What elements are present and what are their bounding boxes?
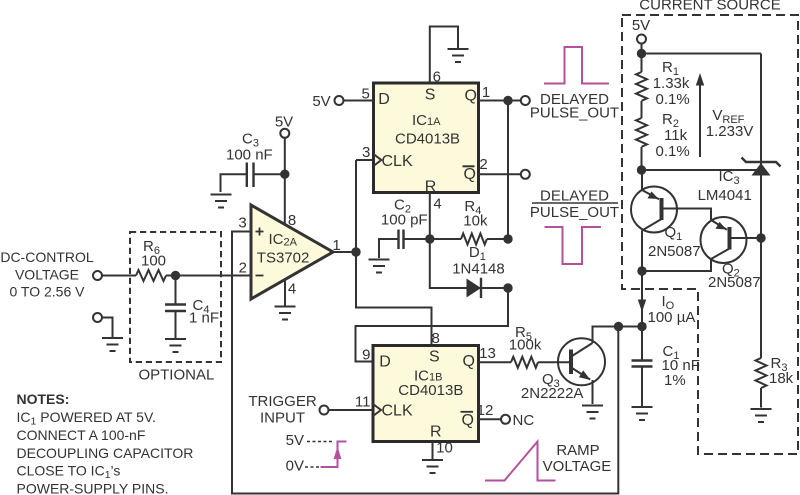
capacitor C1	[641, 327, 643, 361]
trigger 5V dashed level	[307, 441, 334, 443]
diode D1 1N4148	[467, 279, 482, 298]
node C1 junction	[637, 322, 646, 331]
wire input to R6	[103, 275, 137, 277]
terminal NC	[501, 415, 510, 424]
svg-text:0.1%: 0.1%	[656, 143, 690, 160]
svg-text:OPTIONAL: OPTIONAL	[138, 367, 214, 384]
svg-text:DELAYED: DELAYED	[540, 188, 609, 205]
terminal DELAYED PULSE_OUT	[521, 96, 530, 105]
plus sign	[256, 228, 264, 236]
wire S pin6 to ground	[430, 27, 458, 84]
terminal TRIGGER INPUT	[320, 406, 329, 415]
svg-text:5V: 5V	[312, 93, 330, 110]
svg-text:VOLTAGE: VOLTAGE	[15, 267, 79, 283]
capacitor C3	[254, 173, 285, 175]
wire 5V rail to zener top	[642, 53, 762, 55]
svg-text:INPUT: INPUT	[260, 410, 305, 427]
svg-text:1%: 1%	[664, 372, 686, 389]
svg-text:CD4013B: CD4013B	[395, 130, 460, 147]
node output junction	[351, 247, 360, 256]
wire output to CLK1A and S1B	[356, 160, 432, 346]
wire	[103, 318, 113, 339]
svg-text:100 µA: 100 µA	[648, 309, 696, 326]
svg-text:11: 11	[355, 393, 371, 410]
ground	[582, 406, 603, 419]
svg-text:2N5087: 2N5087	[708, 274, 761, 291]
wire Q3 emitter to ground	[592, 380, 594, 404]
Vref arrow	[699, 84, 701, 157]
ground terminal	[93, 313, 102, 322]
wire op-amp pin3 feedback	[232, 232, 618, 494]
svg-text:PULSE_OUT: PULSE_OUT	[530, 105, 619, 122]
IC1B pin names	[379, 349, 475, 441]
svg-text:TS3702: TS3702	[257, 250, 310, 267]
ground	[632, 407, 653, 420]
svg-text:100k: 100k	[509, 337, 542, 354]
svg-text:DECOUPLING CAPACITOR: DECOUPLING CAPACITOR	[17, 445, 194, 461]
wire D1 node to D pin9 of IC1B	[356, 288, 509, 362]
svg-text:POWER-SUPPLY PINS.: POWER-SUPPLY PINS.	[17, 480, 169, 495]
op-amp IC2A TS3702	[251, 205, 333, 299]
wire R3 to ground	[760, 388, 762, 408]
svg-text:CD4013B: CD4013B	[398, 382, 463, 399]
svg-text:CLK: CLK	[382, 153, 413, 170]
wire Qbar pin12 to NC	[479, 418, 501, 420]
resistor R2	[636, 118, 647, 147]
node C3 junction	[280, 170, 289, 179]
svg-text:5V: 5V	[632, 17, 650, 34]
ground	[369, 260, 390, 273]
svg-text:1 nF: 1 nF	[189, 310, 219, 327]
svg-text:0V: 0V	[286, 458, 304, 475]
svg-text:1: 1	[482, 84, 490, 101]
trigger 0V dashed level	[305, 466, 319, 468]
wire Q3 collector	[593, 327, 643, 344]
svg-text:5V: 5V	[286, 432, 304, 449]
node 5V junction	[637, 49, 646, 58]
svg-text:13: 13	[479, 345, 496, 362]
wire trigger to CLK pin11	[329, 409, 374, 411]
wire to R4	[430, 238, 461, 240]
wire R2 to Vref node	[641, 147, 643, 170]
node C4 junction	[171, 271, 180, 280]
5V terminal current source	[637, 35, 646, 44]
svg-text:1.233V: 1.233V	[706, 123, 754, 140]
flip-flop IC1B CD4013B	[373, 346, 479, 442]
resistor R4	[461, 234, 487, 245]
svg-text:1: 1	[332, 237, 340, 254]
ground	[275, 307, 296, 320]
waveform delayed pulse inverted	[545, 227, 602, 264]
svg-text:DC-CONTROL: DC-CONTROL	[0, 249, 94, 265]
wire R5 to Q3 base	[538, 361, 569, 363]
svg-text:5V: 5V	[275, 114, 293, 131]
svg-text:CONNECT A 100-nF: CONNECT A 100-nF	[17, 427, 146, 443]
svg-text:0.1%: 0.1%	[656, 91, 690, 108]
svg-text:CLK: CLK	[382, 403, 413, 420]
svg-text:Q: Q	[464, 166, 476, 183]
svg-text:TRIGGER: TRIGGER	[248, 393, 317, 410]
IC1A pin names	[378, 87, 477, 196]
svg-text:11k: 11k	[664, 127, 688, 144]
ground	[751, 409, 772, 422]
node Vref junction	[637, 165, 646, 174]
svg-text:2: 2	[239, 260, 247, 277]
clock wedge IC1A	[374, 154, 382, 166]
wire 5V down	[641, 44, 643, 72]
node ramp feedback junction	[614, 322, 623, 331]
ground	[211, 195, 232, 208]
wire op-amp output	[333, 251, 356, 253]
wire R pin4 down	[429, 193, 431, 240]
svg-text:10k: 10k	[463, 213, 488, 230]
optional dashed box	[130, 232, 221, 362]
wire Vref node to zener anode	[642, 169, 759, 171]
wire op-amp pin4 to ground	[284, 280, 286, 306]
svg-text:Q: Q	[462, 412, 474, 429]
svg-text:8: 8	[432, 330, 440, 347]
transistor Q2 2N5087	[701, 217, 747, 263]
wire Q pin1 out	[479, 100, 521, 102]
svg-text:4: 4	[433, 196, 441, 213]
svg-text:S: S	[425, 87, 436, 104]
ground	[448, 49, 469, 62]
5V terminal op-amp	[280, 129, 289, 138]
wire Q1 base to Q2 emitter	[664, 209, 712, 221]
svg-text:1N4148: 1N4148	[452, 261, 505, 278]
svg-text:R: R	[430, 424, 442, 441]
wire Q2 collector	[642, 259, 711, 271]
clock wedge IC1B	[373, 404, 381, 416]
svg-text:3: 3	[362, 144, 370, 161]
svg-text:6: 6	[433, 69, 441, 86]
wire 5V to pin 8	[284, 138, 286, 225]
wire Io output	[641, 271, 643, 327]
transistor Q1 2N5087	[631, 187, 677, 233]
svg-text:D: D	[379, 354, 391, 371]
5V terminal D input	[335, 96, 344, 105]
ground	[422, 460, 443, 473]
wire R4 to node	[487, 238, 508, 240]
capacitor C4	[175, 276, 177, 305]
svg-text:5: 5	[362, 86, 370, 103]
svg-text:S: S	[429, 349, 440, 366]
node collectors junction	[637, 266, 646, 275]
svg-text:4: 4	[288, 281, 296, 298]
wire Q pin13 to R5	[479, 361, 512, 363]
resistor R5	[511, 357, 538, 368]
svg-text:2N2222A: 2N2222A	[521, 385, 584, 402]
svg-text:2: 2	[479, 156, 487, 173]
node Q1A junction	[503, 96, 512, 105]
svg-text:2N5087: 2N5087	[648, 243, 701, 260]
svg-text:NC: NC	[513, 412, 535, 429]
waveform trigger edge	[321, 442, 347, 468]
svg-text:PULSE_OUT: PULSE_OUT	[530, 204, 619, 221]
svg-text:CURRENT SOURCE: CURRENT SOURCE	[639, 0, 780, 14]
svg-text:100: 100	[141, 253, 166, 270]
svg-text:10: 10	[436, 440, 453, 457]
svg-text:9: 9	[362, 347, 370, 364]
svg-text:100 pF: 100 pF	[381, 212, 428, 229]
resistor R3	[756, 358, 767, 388]
svg-text:0 TO 2.56 V: 0 TO 2.56 V	[10, 284, 86, 300]
resistor R6	[136, 270, 166, 281]
wire 5V to D pin5	[344, 100, 374, 102]
waveform delayed pulse positive	[544, 47, 609, 84]
svg-text:IC1 POWERED AT 5V.: IC1 POWERED AT 5V.	[17, 409, 156, 428]
svg-text:8: 8	[288, 212, 296, 229]
svg-text:R: R	[425, 178, 437, 195]
capacitor C2	[397, 230, 399, 250]
terminal DELAYED PULSE_OUT inverted	[521, 170, 530, 179]
input terminal DC-CONTROL	[93, 271, 102, 280]
svg-text:12: 12	[477, 402, 494, 419]
node zener/Q2 base junction	[756, 233, 765, 242]
svg-text:100 nF: 100 nF	[226, 147, 273, 164]
wire D1 branch	[430, 239, 467, 288]
svg-text:NOTES:: NOTES:	[17, 391, 70, 407]
wire Qbar pin2 out	[479, 173, 521, 175]
flip-flop IC1A CD4013B	[374, 83, 479, 193]
svg-text:RAMP: RAMP	[556, 442, 599, 459]
waveform ramp voltage	[485, 442, 556, 481]
wire R6 to op-amp pin2	[166, 275, 251, 277]
node R4 right junction	[503, 234, 512, 243]
svg-text:Q: Q	[465, 88, 477, 105]
ground	[102, 338, 123, 351]
svg-text:1.33k: 1.33k	[653, 75, 690, 92]
wire Q2 base	[732, 237, 762, 239]
svg-text:VOLTAGE: VOLTAGE	[543, 458, 612, 475]
zener IC3 LM4041	[752, 163, 771, 176]
ground	[165, 339, 186, 352]
svg-text:LM4041: LM4041	[698, 187, 752, 204]
wire R pin10 to ground	[432, 442, 434, 460]
minus sign	[256, 275, 264, 277]
svg-text:Q: Q	[463, 353, 475, 370]
wire Q1A down to R4	[507, 101, 509, 240]
Io arrow	[638, 300, 646, 313]
wire R1-R2	[641, 101, 643, 118]
svg-text:18k: 18k	[769, 370, 794, 387]
node D1 cathode junction	[503, 283, 512, 292]
wire Q1 collector down	[641, 231, 643, 272]
current source dashed box	[622, 15, 798, 454]
svg-text:D: D	[378, 91, 390, 108]
resistor R1	[636, 72, 647, 101]
transistor Q3 2N2222A	[558, 338, 605, 385]
wire zener vertical	[760, 54, 762, 359]
wire CLK IC1A	[356, 159, 374, 161]
node C2/R4 junction	[425, 234, 434, 243]
svg-text:3: 3	[238, 215, 246, 232]
